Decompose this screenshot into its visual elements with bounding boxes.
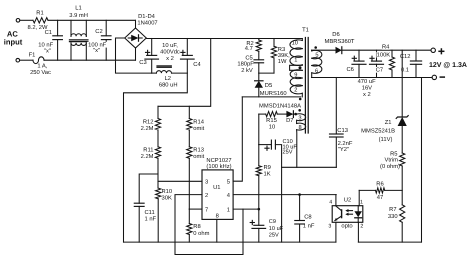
svg-text:NCP1027: NCP1027 — [206, 157, 231, 164]
wire secondary top to D6 — [312, 49, 336, 51]
svg-text:1W: 1W — [278, 59, 287, 65]
capacitor C7 — [376, 50, 378, 61]
fuse F1 — [33, 57, 44, 64]
resistor R9 — [258, 145, 260, 166]
svg-text:1: 1 — [227, 207, 230, 213]
svg-text:250 Vac: 250 Vac — [30, 69, 51, 76]
svg-text:C3: C3 — [139, 59, 146, 66]
svg-text:x 2: x 2 — [166, 55, 174, 62]
wire pin1 vcc line — [233, 208, 259, 210]
resistor R3 — [273, 39, 275, 47]
junction feedback C8 — [298, 193, 301, 196]
svg-text:5: 5 — [315, 53, 318, 59]
resistor R15 — [259, 113, 266, 115]
terminal output plus — [431, 48, 435, 52]
svg-text:39K,: 39K, — [278, 52, 290, 59]
svg-text:C6: C6 — [346, 66, 353, 73]
capacitor C9 — [254, 224, 264, 226]
junction D7 aux — [294, 113, 297, 116]
svg-text:x 2: x 2 — [363, 91, 371, 98]
svg-text:D7: D7 — [286, 118, 293, 124]
capacitor C10 — [258, 114, 260, 145]
svg-text:12V @ 1.3A: 12V @ 1.3A — [429, 62, 467, 69]
svg-text:4.7: 4.7 — [245, 46, 253, 52]
wire C4 to primary ground — [124, 59, 188, 242]
svg-text:2 kV: 2 kV — [241, 67, 253, 74]
svg-text:D5: D5 — [265, 83, 272, 89]
capacitor C11 — [139, 174, 158, 203]
svg-text:C12: C12 — [400, 53, 411, 60]
svg-text:R10: R10 — [162, 188, 173, 195]
svg-text:MMSZ5241B: MMSZ5241B — [361, 128, 395, 135]
svg-text:10 uF,: 10 uF, — [162, 42, 178, 49]
IC U1 NCP1027 — [202, 170, 233, 220]
svg-text:1 A,: 1 A, — [37, 63, 47, 69]
opto light arrows — [347, 210, 353, 212]
svg-text:10: 10 — [269, 123, 275, 130]
svg-text:1K: 1K — [264, 172, 271, 178]
resistor R2 — [258, 39, 260, 41]
capacitor C13 — [335, 78, 337, 135]
wire aux bottom to ground — [296, 130, 298, 168]
svg-text:Vtrim: Vtrim — [384, 157, 398, 164]
svg-text:3.9 mH: 3.9 mH — [69, 12, 88, 19]
wire bridge bottom to AC line — [135, 48, 137, 60]
svg-text:R5: R5 — [390, 151, 397, 157]
optocoupler U2 — [332, 206, 363, 223]
svg-text:R9: R9 — [264, 164, 271, 171]
wire pin2 to signal ground loop — [175, 195, 243, 255]
wire pin3 line — [158, 180, 202, 182]
resistor R6 — [359, 189, 375, 191]
svg-text:1 nF: 1 nF — [145, 217, 157, 223]
svg-text:C1: C1 — [45, 29, 52, 36]
svg-text:1: 1 — [360, 200, 363, 206]
inductor L2 — [152, 72, 157, 74]
output plus sign — [439, 50, 444, 52]
svg-text:0 ohm: 0 ohm — [193, 230, 209, 237]
svg-text:T1: T1 — [302, 27, 309, 33]
diode D5 clamp — [258, 73, 260, 81]
svg-text:"x": "x" — [44, 48, 51, 54]
svg-text:U1: U1 — [213, 185, 220, 191]
svg-text:"Y2": "Y2" — [338, 146, 349, 153]
svg-text:C8: C8 — [304, 214, 311, 221]
svg-text:10 nF: 10 nF — [38, 41, 53, 48]
transformer primary winding upper pins 10-1 — [301, 39, 303, 41]
resistor R1 — [33, 18, 48, 23]
capacitor C3 — [151, 39, 153, 56]
svg-text:2.2M: 2.2M — [141, 153, 154, 160]
junction dot primary link — [299, 66, 302, 69]
svg-text:4: 4 — [329, 200, 332, 206]
svg-text:C13: C13 — [337, 127, 348, 134]
wire ground segment aux — [282, 166, 337, 168]
svg-text:1: 1 — [294, 58, 297, 64]
svg-text:R13: R13 — [193, 146, 204, 153]
svg-text:47: 47 — [377, 195, 383, 201]
capacitor C2 — [105, 20, 107, 36]
wire opto pin2 stub — [357, 222, 359, 242]
svg-text:(11V): (11V) — [379, 136, 393, 143]
svg-text:U2: U2 — [344, 197, 351, 204]
wire bridge top to AC line — [135, 20, 137, 28]
svg-text:3: 3 — [205, 179, 208, 186]
svg-text:R1: R1 — [36, 11, 43, 17]
svg-text:D1-D4: D1-D4 — [138, 14, 156, 20]
terminal AC line input — [16, 19, 20, 23]
wire DC plus rail — [146, 38, 302, 40]
svg-text:R4: R4 — [382, 45, 390, 51]
wire R13 to pin7 — [188, 158, 190, 209]
zener diode Z1 — [401, 50, 403, 117]
phase dot aux winding — [298, 109, 301, 112]
opto phototransistor — [341, 210, 343, 218]
choke L1 — [70, 20, 72, 36]
wire winding2 to drain — [301, 93, 303, 97]
svg-text:omit: omit — [193, 153, 204, 160]
resistor R8 — [188, 209, 190, 223]
svg-text:C2: C2 — [95, 28, 102, 35]
svg-text:25V: 25V — [283, 150, 293, 156]
svg-text:C11: C11 — [145, 209, 155, 216]
wire F1 to bridge — [44, 59, 136, 61]
wire R6 to opto — [358, 190, 360, 205]
svg-text:D6: D6 — [332, 31, 339, 38]
capacitor C4 — [186, 39, 188, 56]
svg-text:680 uH: 680 uH — [159, 82, 178, 89]
svg-text:opto: opto — [341, 224, 352, 230]
capacitor C8 — [299, 195, 301, 221]
svg-text:"x": "x" — [93, 48, 100, 54]
resistor R7 — [400, 205, 405, 223]
wire startup divider feed — [158, 39, 211, 107]
phase dot secondary — [314, 46, 317, 49]
svg-text:R15: R15 — [266, 118, 277, 124]
resistor R11 — [157, 130, 159, 147]
svg-text:3: 3 — [328, 224, 331, 230]
capacitor C6 — [358, 50, 360, 61]
resistor R4 — [391, 50, 393, 57]
bridge rectifier D1-D4 — [125, 28, 147, 48]
phase dot winding2 bottom — [299, 98, 302, 101]
svg-text:470 uF: 470 uF — [358, 78, 377, 85]
svg-text:MURS160: MURS160 — [260, 90, 287, 97]
svg-text:(100 kHz): (100 kHz) — [206, 163, 231, 170]
wire minus rail to ground riser — [421, 78, 423, 243]
svg-text:C7: C7 — [376, 67, 383, 74]
svg-text:C5: C5 — [245, 54, 252, 61]
wire AC top line — [20, 19, 33, 21]
wire secondary ground rail — [358, 241, 421, 243]
wire drain line — [242, 96, 300, 98]
svg-text:2: 2 — [205, 192, 208, 199]
wire snubber bottom — [259, 72, 274, 74]
svg-text:2.2M: 2.2M — [141, 125, 154, 132]
resistor R14 — [188, 106, 190, 118]
svg-text:R6: R6 — [376, 180, 383, 187]
svg-text:180pF: 180pF — [237, 61, 254, 68]
transformer primary link jog — [290, 65, 303, 71]
wire bridge DC minus jog — [116, 38, 152, 73]
svg-text:400Vdc: 400Vdc — [160, 48, 180, 55]
wire R5 to R6 node — [401, 166, 403, 205]
svg-text:L1: L1 — [75, 5, 81, 11]
svg-text:8: 8 — [299, 125, 302, 131]
svg-text:1N4007: 1N4007 — [137, 20, 157, 27]
svg-text:MBRS360T: MBRS360T — [325, 38, 355, 45]
svg-text:1 nF: 1 nF — [303, 224, 315, 230]
svg-text:7: 7 — [205, 207, 208, 213]
resistor R13 — [188, 130, 190, 147]
diode D6 — [336, 47, 342, 54]
svg-text:Z1: Z1 — [385, 120, 392, 126]
wire output minus rail — [312, 77, 433, 79]
resistor R12 — [157, 106, 159, 118]
wire opto pin3 riser — [335, 222, 337, 242]
svg-text:2: 2 — [294, 88, 297, 94]
svg-text:10: 10 — [292, 41, 298, 47]
svg-text:input: input — [4, 37, 23, 46]
svg-text:9: 9 — [294, 72, 297, 78]
output minus sign — [440, 76, 444, 78]
resistor R5 — [401, 126, 403, 153]
terminal AC neutral input — [16, 58, 20, 62]
wire feedback to opto pin4 — [335, 195, 337, 206]
svg-text:5: 5 — [227, 180, 230, 186]
transformer primary winding lower pins 9-2 — [290, 70, 302, 79]
svg-text:30K: 30K — [162, 194, 172, 201]
svg-text:25V: 25V — [269, 232, 279, 238]
transformer aux winding pins 3-8 — [297, 114, 306, 121]
svg-text:C4: C4 — [193, 61, 201, 68]
wire R11 to R10 — [157, 158, 159, 188]
svg-text:F1: F1 — [29, 53, 36, 59]
svg-text:R11: R11 — [143, 147, 153, 153]
wire primary ground rail — [124, 241, 336, 243]
svg-text:8: 8 — [216, 213, 219, 220]
svg-text:R8: R8 — [193, 223, 200, 230]
svg-text:6: 6 — [315, 68, 318, 74]
svg-text:R7: R7 — [389, 207, 396, 213]
svg-text:2: 2 — [360, 224, 363, 230]
wire AC bottom lead — [20, 59, 33, 61]
svg-text:L2: L2 — [165, 75, 171, 82]
transformer core — [304, 38, 306, 134]
svg-text:C9: C9 — [269, 219, 276, 225]
wire pin8 stub — [216, 219, 218, 242]
svg-text:(0 ohm): (0 ohm) — [380, 163, 400, 170]
svg-text:16V: 16V — [362, 85, 372, 92]
transformer secondary winding pins 5-6 — [311, 49, 313, 52]
svg-text:R12: R12 — [143, 118, 154, 125]
opto LED — [357, 206, 359, 212]
svg-text:omit: omit — [193, 125, 204, 132]
capacitor C5 — [258, 51, 260, 60]
wire output plus rail — [342, 49, 431, 51]
svg-text:100K: 100K — [377, 51, 391, 58]
capacitor C12 — [415, 50, 417, 61]
wire pin5 to drain riser — [233, 97, 242, 181]
svg-text:10 uF: 10 uF — [269, 226, 284, 232]
svg-text:3: 3 — [298, 116, 301, 122]
svg-text:330: 330 — [388, 213, 398, 220]
terminal output minus — [432, 75, 436, 79]
junction pin1 node — [258, 208, 261, 211]
wire pin4 feedback line — [233, 194, 336, 196]
wire R1 to bridge — [48, 19, 135, 21]
svg-text:R3: R3 — [278, 46, 285, 53]
resistor R10 — [156, 188, 161, 199]
svg-text:R14: R14 — [193, 119, 204, 125]
capacitor C1 — [57, 20, 59, 36]
diode D7 — [277, 113, 286, 115]
svg-text:MMSD1N4148A: MMSD1N4148A — [259, 102, 301, 109]
